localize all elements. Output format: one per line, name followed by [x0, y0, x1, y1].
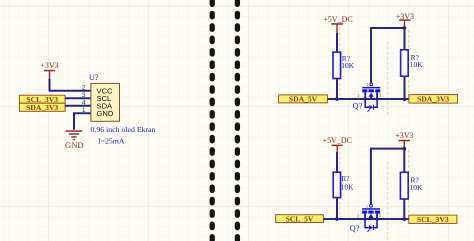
- port SCL_3V3 (left): [19, 95, 65, 104]
- svg-text:SDA_5V: SDA_5V: [289, 95, 318, 104]
- wire +3V3 rail to R2: [404, 28, 406, 50]
- junction Q1 drain-bus: [376, 97, 379, 100]
- junction Q1 source-bus: [364, 97, 367, 100]
- wire gate net (top): [371, 28, 405, 83]
- junction gate-rail (bottom): [402, 147, 406, 151]
- wire gate net (bottom): [371, 149, 404, 204]
- divider dashed line left: [210, 1, 215, 241]
- svg-text:2: 2: [82, 84, 86, 91]
- svg-text:1: 1: [366, 82, 369, 87]
- wire +3V3 rail to R4: [403, 149, 405, 173]
- svg-text:+3V3: +3V3: [40, 61, 58, 70]
- resistor R1 10K: [333, 52, 355, 78]
- junction gate-rail (top): [403, 26, 407, 30]
- wire SDA_3V3 to pin 4: [65, 105, 91, 107]
- power +3V3 (bottom right): [395, 131, 413, 149]
- wire SCL_3V3 to pin 3: [65, 97, 91, 99]
- wire SDA bus: [327, 98, 409, 100]
- marker dashed line B2: [387, 162, 389, 241]
- svg-text:Q?: Q?: [353, 102, 363, 111]
- wire +5V_DC to R3: [336, 152, 338, 173]
- marker dashed line B1: [339, 147, 341, 219]
- svg-text:10K: 10K: [410, 60, 424, 69]
- svg-text:SCL_3V3: SCL_3V3: [417, 215, 449, 224]
- wire pin 1 to ground: [74, 113, 91, 130]
- wire +3V3 to pin 2: [49, 79, 91, 91]
- svg-text:SDA_3V3: SDA_3V3: [417, 95, 449, 104]
- svg-text:3: 3: [379, 93, 382, 98]
- junction R4-bus: [402, 217, 406, 221]
- power +5V_DC (bottom): [323, 136, 352, 153]
- port SDA_5V: [279, 95, 328, 104]
- svg-text:1: 1: [366, 203, 369, 208]
- divider dashed line right: [235, 1, 240, 241]
- port SCL_5V: [276, 214, 324, 223]
- marker dashed line A1: [339, 28, 341, 99]
- transistor Q1 (nmos level shifter, SDA): [362, 83, 380, 112]
- svg-text:SCL_5V: SCL_5V: [286, 214, 314, 223]
- svg-text:3: 3: [379, 213, 382, 218]
- svg-text:10K: 10K: [410, 183, 424, 192]
- resistor R3 10K: [333, 172, 354, 197]
- svg-text:+5V_DC: +5V_DC: [323, 15, 352, 24]
- marker dashed line B3: [408, 150, 410, 215]
- wire R1 to bus: [336, 79, 338, 100]
- connector U1 (0.96 inch oled): [91, 83, 120, 121]
- transistor Q2 (nmos level shifter, SCL): [362, 204, 380, 231]
- power +3V3 (left oled circuit): [40, 61, 58, 80]
- svg-text:0.96 inch oled Ekran: 0.96 inch oled Ekran: [91, 125, 156, 134]
- power +3V3 (top right): [396, 12, 414, 28]
- svg-text:SDA_3V3: SDA_3V3: [26, 103, 58, 112]
- ground GND symbol: [65, 130, 84, 150]
- svg-text:1: 1: [82, 107, 86, 114]
- junction Q2 drain-bus: [375, 218, 378, 221]
- svg-text:I=25mA: I=25mA: [98, 136, 125, 145]
- svg-text:+5V_DC: +5V_DC: [323, 136, 352, 145]
- svg-text:GND: GND: [97, 109, 114, 118]
- svg-text:Q?: Q?: [350, 224, 360, 233]
- port SDA_3V3 (right): [409, 95, 458, 104]
- resistor R2 10K: [401, 50, 424, 76]
- wire R3 to bus: [336, 198, 338, 219]
- resistor R4 10K: [400, 172, 423, 199]
- wire +5V_DC to R (top left): [336, 33, 338, 53]
- marker dashed line A3: [408, 30, 410, 95]
- wire R2 to bus: [404, 76, 406, 99]
- svg-text:GND: GND: [65, 140, 84, 150]
- svg-text:10K: 10K: [341, 182, 355, 191]
- svg-text:10K: 10K: [341, 61, 355, 70]
- junction R1-bus: [335, 97, 339, 101]
- marker dashed line A2: [387, 42, 389, 116]
- svg-text:+3V3: +3V3: [395, 131, 413, 140]
- power +5V_DC (top): [323, 15, 352, 33]
- port SCL_3V3 (right): [409, 215, 457, 224]
- svg-text:4: 4: [82, 99, 86, 106]
- junction Q2 source-bus: [363, 218, 366, 221]
- svg-text:3: 3: [82, 92, 86, 99]
- svg-text:2: 2: [357, 213, 360, 218]
- wire R4 to bus: [403, 199, 405, 219]
- junction R3-bus: [335, 217, 339, 221]
- wire SCL bus: [323, 218, 409, 220]
- svg-text:+3V3: +3V3: [396, 12, 414, 21]
- svg-text:2: 2: [357, 93, 360, 98]
- port SDA_3V3 (left): [19, 103, 65, 112]
- junction R2-bus: [403, 97, 407, 101]
- svg-text:U?: U?: [89, 73, 99, 82]
